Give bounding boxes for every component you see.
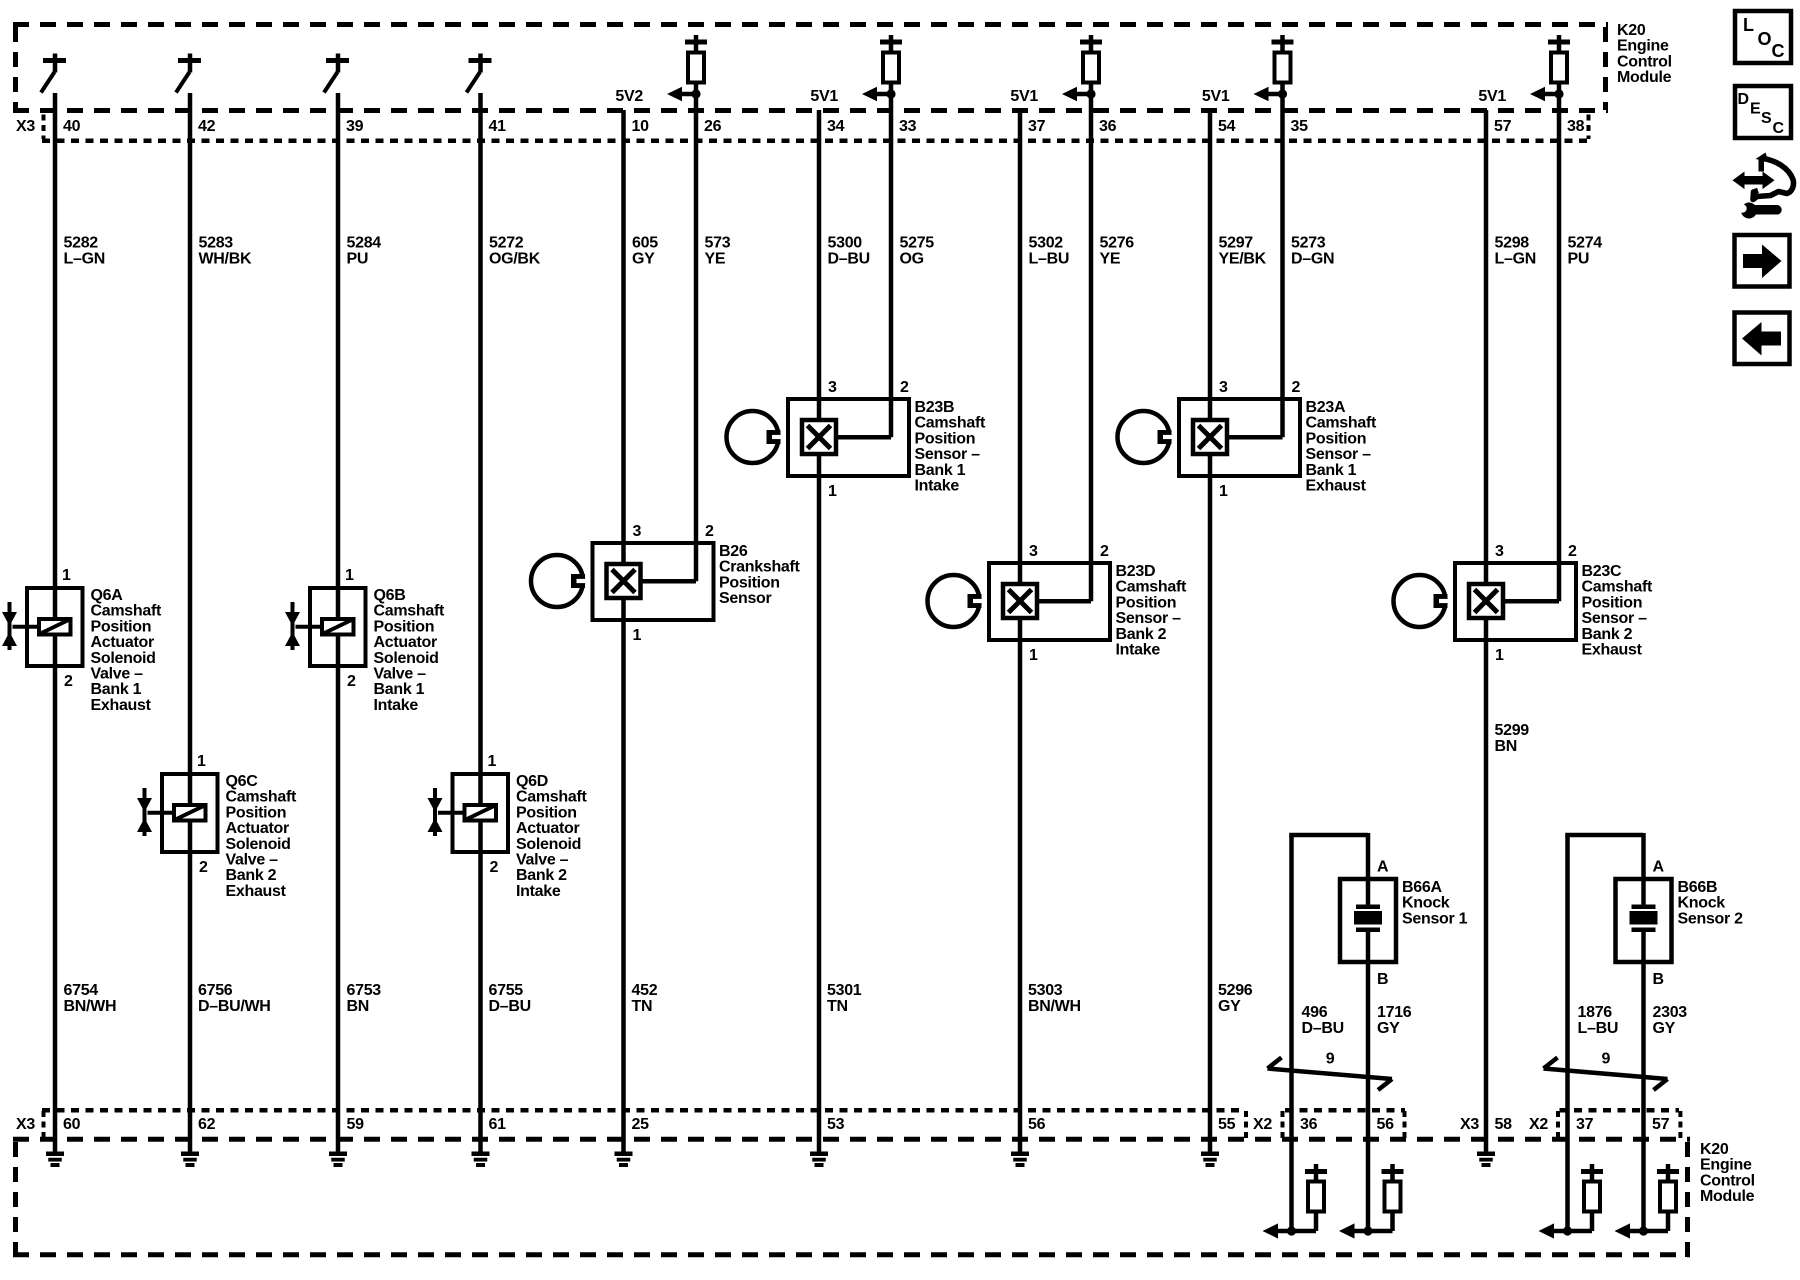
svg-text:496: 496 (1302, 1004, 1328, 1021)
svg-text:5282: 5282 (64, 235, 99, 252)
svg-text:605: 605 (632, 235, 658, 252)
svg-text:YE: YE (1100, 251, 1121, 268)
svg-text:B66A: B66A (1402, 879, 1442, 896)
wire label 496 D&#8211;BU (1302, 1004, 1344, 1037)
svg-text:5303: 5303 (1028, 982, 1063, 999)
wire label 5297 YE/BK (1219, 235, 1267, 268)
resistor (internal pull-up at 5V1, wire x=1559) (1548, 35, 1570, 83)
svg-text:X3: X3 (16, 1116, 35, 1133)
svg-text:40: 40 (63, 118, 81, 135)
svg-text:Camshaft: Camshaft (226, 789, 297, 806)
svg-text:B66B: B66B (1678, 879, 1718, 896)
knock sensor B66A Knock Sensor 1 (1289, 833, 1467, 1139)
svg-text:Control: Control (1617, 53, 1672, 70)
K20 Engine Control Module (bottom) dashed border (13, 1139, 1690, 1257)
wire label 2303 GY (1653, 1004, 1688, 1037)
svg-text:Sensor: Sensor (719, 590, 772, 607)
svg-text:B: B (1377, 971, 1388, 988)
svg-text:Valve –: Valve – (516, 852, 569, 869)
svg-text:9: 9 (1326, 1051, 1335, 1068)
svg-text:35: 35 (1291, 118, 1309, 135)
svg-text:TN: TN (632, 998, 653, 1015)
svg-text:Position: Position (1306, 430, 1367, 447)
svg-text:Position: Position (516, 804, 577, 821)
ECM low-side driver switch 1 (pin 40) (41, 54, 66, 93)
sensor B26 Crankshaft Position Sensor (531, 523, 801, 644)
svg-text:Position: Position (374, 618, 435, 635)
svg-text:Engine: Engine (1617, 38, 1669, 55)
svg-text:D: D (1738, 91, 1749, 108)
connector X2 (bottom right) dotted row (1560, 1108, 1680, 1113)
svg-text:62: 62 (198, 1116, 216, 1133)
svg-text:34: 34 (827, 118, 845, 135)
connector X3 (top) separator left (42, 115, 46, 140)
wire x=338 top segment (336, 93, 341, 588)
connector separator x=1246 (1244, 1111, 1248, 1138)
svg-text:GY: GY (1218, 998, 1241, 1015)
ECM low-side driver switch 2 (pin 42) (176, 54, 201, 93)
knock sensor B66B Knock Sensor 2 (1565, 833, 1743, 1139)
svg-text:D–BU/WH: D–BU/WH (198, 998, 271, 1015)
svg-text:Q6C: Q6C (226, 773, 259, 790)
pin 33 (X3 top) (899, 118, 917, 135)
svg-text:Actuator: Actuator (91, 634, 154, 651)
connector X3 (top) label (16, 118, 35, 135)
svg-text:9: 9 (1602, 1051, 1611, 1068)
twisted pair marker 9 (B66A Knock Sensor 1) (1268, 1051, 1393, 1091)
node 5V2 reference arrow (615, 87, 700, 105)
svg-text:Solenoid: Solenoid (516, 836, 581, 853)
svg-text:B26: B26 (719, 543, 748, 560)
svg-text:Intake: Intake (1116, 642, 1161, 659)
svg-text:YE: YE (705, 251, 726, 268)
pin 37 (bottom row x=1576) (1576, 1116, 1594, 1133)
wire label 5282 L&#8211;GN (64, 235, 105, 268)
svg-text:3: 3 (1029, 543, 1038, 560)
svg-text:C: C (1772, 41, 1785, 61)
ECM knock input network (wire x=1643.5) (1615, 1139, 1680, 1239)
wire x=1020 top segment (1018, 110, 1023, 565)
svg-text:2: 2 (64, 673, 73, 690)
svg-text:GY: GY (1653, 1020, 1676, 1037)
svg-text:36: 36 (1099, 118, 1117, 135)
svg-text:B: B (1653, 971, 1664, 988)
pin 59 (bottom row x=346.5) (347, 1116, 365, 1133)
svg-text:1876: 1876 (1578, 1004, 1613, 1021)
svg-text:Position: Position (226, 804, 287, 821)
connector separator x=1282.5 (1281, 1111, 1285, 1138)
svg-text:54: 54 (1218, 118, 1236, 135)
svg-text:3: 3 (633, 523, 642, 540)
svg-text:1: 1 (828, 483, 837, 500)
wire x=1091 top segment (1089, 82, 1094, 565)
svg-text:573: 573 (705, 235, 731, 252)
wire label 1876 L&#8211;BU (1578, 1004, 1619, 1037)
svg-text:Camshaft: Camshaft (1116, 579, 1187, 596)
svg-text:5283: 5283 (199, 235, 234, 252)
wire label 573 YE (705, 235, 731, 268)
resistor (internal pull-up at 5V1, wire x=891) (880, 35, 902, 83)
wire label 5283 WH/BK (199, 235, 252, 268)
svg-text:1: 1 (488, 753, 497, 770)
pin 40 (X3 top) (63, 118, 81, 135)
pin 55 (bottom row x=1218) (1218, 1116, 1236, 1133)
ECM knock input network (wire x=1567.5) (1539, 1139, 1604, 1239)
svg-text:X3: X3 (16, 118, 35, 135)
svg-text:33: 33 (899, 118, 917, 135)
node 5V1 reference arrow (1010, 87, 1095, 105)
svg-text:PU: PU (1568, 251, 1590, 268)
svg-text:Bank 1: Bank 1 (374, 681, 425, 698)
svg-text:Camshaft: Camshaft (915, 415, 986, 432)
svg-text:L–BU: L–BU (1578, 1020, 1619, 1037)
pin X2 (bottom row x=1253) (1253, 1116, 1272, 1133)
resistor (internal pull-up at 5V1, wire x=1091) (1080, 35, 1102, 83)
wire x=1486 lower segment (1484, 640, 1489, 1139)
svg-text:Q6D: Q6D (516, 773, 548, 790)
svg-text:BN/WH: BN/WH (64, 998, 117, 1015)
resistor (internal pull-up at 5V2, wire x=696) (685, 35, 707, 83)
wire x=623.5 lower segment (621, 620, 626, 1139)
svg-text:B23B: B23B (915, 399, 955, 416)
svg-text:K20: K20 (1617, 22, 1646, 39)
wire label 1716 GY (1377, 1004, 1412, 1037)
icon LOC box (1735, 11, 1791, 63)
svg-text:K20: K20 (1700, 1141, 1729, 1158)
svg-text:5274: 5274 (1568, 235, 1603, 252)
svg-text:60: 60 (63, 1116, 81, 1133)
wire label 6754 BN/WH (64, 982, 117, 1015)
connector X2 (bottom left) dotted row (1285, 1108, 1405, 1113)
wire x=55 lower segment (53, 666, 58, 1139)
svg-text:6755: 6755 (489, 982, 524, 999)
svg-text:Bank 2: Bank 2 (226, 867, 277, 884)
wire label 5273 D&#8211;GN (1291, 235, 1334, 268)
wire label 5272 OG/BK (489, 235, 541, 268)
svg-text:2: 2 (1568, 543, 1577, 560)
wire x=1210 top segment (1208, 110, 1213, 401)
svg-text:X2: X2 (1529, 1116, 1548, 1133)
svg-text:2: 2 (199, 859, 208, 876)
svg-text:452: 452 (632, 982, 658, 999)
svg-text:5301: 5301 (827, 982, 862, 999)
wire x=623.5 top segment (621, 110, 626, 545)
svg-text:5275: 5275 (900, 235, 935, 252)
pin 54 (X3 top) (1218, 118, 1236, 135)
svg-text:55: 55 (1218, 1116, 1236, 1133)
svg-text:BN/WH: BN/WH (1028, 998, 1081, 1015)
wire label 5298 L&#8211;GN (1495, 235, 1536, 268)
svg-text:2: 2 (705, 523, 714, 540)
svg-text:B23C: B23C (1582, 563, 1622, 580)
svg-text:36: 36 (1300, 1116, 1318, 1133)
svg-text:Intake: Intake (374, 697, 419, 714)
pin 57 (X3 top) (1494, 118, 1512, 135)
K20 Engine Control Module (top) dashed border (13, 25, 1608, 111)
svg-text:Camshaft: Camshaft (374, 603, 445, 620)
svg-text:Module: Module (1700, 1188, 1755, 1205)
svg-text:D–GN: D–GN (1291, 251, 1334, 268)
svg-text:Exhaust: Exhaust (226, 883, 287, 900)
K20 Engine Control Module (top) label (1617, 22, 1672, 86)
icon DESC box (1735, 86, 1791, 138)
wire label 5276 YE (1100, 235, 1135, 268)
svg-text:D–BU: D–BU (1302, 1020, 1344, 1037)
svg-text:2: 2 (490, 859, 499, 876)
svg-text:42: 42 (198, 118, 216, 135)
twisted pair marker 9 (B66B Knock Sensor 2) (1544, 1051, 1668, 1091)
pin X2 (bottom row x=1529) (1529, 1116, 1548, 1133)
svg-text:6756: 6756 (198, 982, 233, 999)
wire label 5274 PU (1568, 235, 1603, 268)
svg-text:Actuator: Actuator (226, 820, 289, 837)
svg-text:5V1: 5V1 (1202, 88, 1230, 105)
pin 26 (X3 top) (704, 118, 722, 135)
svg-text:6753: 6753 (347, 982, 382, 999)
svg-text:Position: Position (1116, 594, 1177, 611)
svg-text:L–GN: L–GN (64, 251, 105, 268)
ground (wire x=623.5) (615, 1139, 633, 1167)
wire label 5302 L&#8211;BU (1029, 235, 1070, 268)
svg-text:BN: BN (347, 998, 370, 1015)
svg-text:Bank 2: Bank 2 (516, 867, 567, 884)
svg-text:1716: 1716 (1377, 1004, 1412, 1021)
svg-text:Sensor 1: Sensor 1 (1402, 910, 1468, 927)
svg-text:1: 1 (1029, 647, 1038, 664)
ECM knock input network (wire x=1368) (1339, 1139, 1404, 1239)
wire x=1210 lower segment (1208, 476, 1213, 1139)
svg-text:1: 1 (345, 567, 354, 584)
svg-text:1: 1 (197, 753, 206, 770)
ground (wire x=1020) (1011, 1139, 1029, 1167)
svg-text:C: C (1773, 120, 1785, 137)
icon arrow right box (1735, 235, 1790, 287)
sensor B23A Camshaft Position Sensor Bank 1 Exhaust (1118, 379, 1377, 500)
connector X3 (top) separator right (1587, 115, 1591, 140)
wire label 5275 OG (900, 235, 935, 268)
svg-text:5297: 5297 (1219, 235, 1254, 252)
svg-text:A: A (1653, 859, 1665, 876)
wire x=190 lower segment (188, 852, 193, 1139)
wire x=480.5 lower segment (478, 852, 483, 1139)
pin 61 (bottom row x=488.5) (489, 1116, 507, 1133)
pin 34 (X3 top) (827, 118, 845, 135)
pin 57 (bottom row x=1652) (1652, 1116, 1670, 1133)
svg-text:3: 3 (828, 379, 837, 396)
svg-text:Position: Position (915, 430, 976, 447)
node 5V1 reference arrow (1478, 87, 1563, 105)
wire label 6756 D&#8211;BU/WH (198, 982, 271, 1015)
wire x=338 lower segment (336, 666, 341, 1139)
ECM low-side driver switch 4 (pin 41) (467, 54, 492, 93)
svg-text:Solenoid: Solenoid (91, 650, 156, 667)
svg-text:Bank 1: Bank 1 (915, 462, 966, 479)
pin 39 (X3 top) (346, 118, 364, 135)
svg-text:Q6A: Q6A (91, 587, 124, 604)
svg-text:OG/BK: OG/BK (489, 251, 541, 268)
svg-text:5V1: 5V1 (1010, 88, 1038, 105)
svg-text:Valve –: Valve – (226, 852, 279, 869)
svg-text:Bank 1: Bank 1 (91, 681, 142, 698)
node 5V1 reference arrow (810, 87, 895, 105)
ground (wire x=338) (329, 1139, 347, 1167)
svg-text:37: 37 (1028, 118, 1046, 135)
svg-text:5300: 5300 (828, 235, 863, 252)
svg-text:Module: Module (1617, 69, 1672, 86)
svg-text:5299: 5299 (1495, 722, 1530, 739)
connector separator x=1558 (1556, 1111, 1560, 1138)
svg-text:Sensor –: Sensor – (1306, 446, 1372, 463)
pin 62 (bottom row x=198) (198, 1116, 216, 1133)
svg-text:5276: 5276 (1100, 235, 1135, 252)
sensor B23D Camshaft Position Sensor Bank 2 Intake (928, 543, 1187, 664)
svg-text:Camshaft: Camshaft (91, 603, 162, 620)
svg-text:Knock: Knock (1402, 895, 1450, 912)
wire x=1282.5 top segment (1280, 82, 1285, 401)
svg-text:WH/BK: WH/BK (199, 251, 252, 268)
ECM knock input network (wire x=1291.5) (1263, 1139, 1328, 1239)
pin 35 (X3 top) (1291, 118, 1309, 135)
svg-text:GY: GY (632, 251, 655, 268)
svg-text:Camshaft: Camshaft (516, 789, 587, 806)
ground (wire x=55) (46, 1139, 64, 1167)
pin 42 (X3 top) (198, 118, 216, 135)
svg-text:L–GN: L–GN (1495, 251, 1536, 268)
svg-text:Knock: Knock (1678, 895, 1726, 912)
wire label 6755 D&#8211;BU (489, 982, 531, 1015)
svg-text:39: 39 (346, 118, 364, 135)
wire x=480.5 top segment (478, 93, 483, 774)
svg-text:61: 61 (489, 1116, 507, 1133)
svg-text:Solenoid: Solenoid (374, 650, 439, 667)
svg-text:Valve –: Valve – (374, 666, 427, 683)
sensor B23B Camshaft Position Sensor Bank 1 Intake (727, 379, 986, 500)
svg-text:Camshaft: Camshaft (1582, 579, 1653, 596)
svg-text:26: 26 (704, 118, 722, 135)
pin 56 (bottom row x=1028) (1028, 1116, 1046, 1133)
wire label 6753 BN (347, 982, 382, 1015)
svg-text:56: 56 (1377, 1116, 1395, 1133)
svg-text:X3: X3 (1460, 1116, 1479, 1133)
svg-text:Sensor –: Sensor – (1582, 610, 1648, 627)
svg-text:57: 57 (1494, 118, 1512, 135)
wire x=190 top segment (188, 93, 193, 774)
svg-text:Bank 1: Bank 1 (1306, 462, 1357, 479)
pin X3 (bottom row x=1460) (1460, 1116, 1479, 1133)
svg-text:2303: 2303 (1653, 1004, 1688, 1021)
wire x=1559 top segment (1557, 82, 1562, 565)
svg-text:S: S (1761, 110, 1772, 127)
svg-text:5273: 5273 (1291, 235, 1326, 252)
connector separator x=43.5 (42, 1111, 46, 1138)
svg-text:5V2: 5V2 (615, 88, 643, 105)
ground (wire x=1210) (1201, 1139, 1219, 1167)
svg-text:Crankshaft: Crankshaft (719, 559, 801, 576)
svg-text:1: 1 (1495, 647, 1504, 664)
solenoid valve Q6A (2, 567, 162, 714)
svg-text:E: E (1750, 101, 1761, 118)
icon double arrow / curved arrow / wrench (service info) (1733, 153, 1794, 219)
svg-text:2: 2 (1292, 379, 1301, 396)
wire label 5299 BN (1495, 722, 1530, 755)
wire label 5300 D&#8211;BU (828, 235, 870, 268)
pin 38 (X3 top) (1567, 118, 1585, 135)
svg-text:PU: PU (347, 251, 369, 268)
solenoid valve Q6B (285, 567, 445, 714)
svg-text:Exhaust: Exhaust (1306, 478, 1367, 495)
wire label 5296 GY (1218, 982, 1253, 1015)
svg-text:Position: Position (1582, 594, 1643, 611)
svg-text:1: 1 (62, 567, 71, 584)
svg-text:Position: Position (91, 618, 152, 635)
svg-text:TN: TN (827, 998, 848, 1015)
wire x=819 top segment (817, 110, 822, 401)
svg-text:53: 53 (827, 1116, 845, 1133)
svg-text:Q6B: Q6B (374, 587, 406, 604)
svg-text:Bank 2: Bank 2 (1116, 626, 1167, 643)
pin 58 (bottom row x=1494.5) (1495, 1116, 1513, 1133)
svg-text:Position: Position (719, 574, 780, 591)
pin 56 (bottom row x=1376.5) (1377, 1116, 1395, 1133)
svg-text:38: 38 (1567, 118, 1585, 135)
svg-text:5302: 5302 (1029, 235, 1064, 252)
pin 25 (bottom row x=631.5) (632, 1116, 650, 1133)
svg-text:D–BU: D–BU (489, 998, 531, 1015)
pin X3 (bottom row x=16) (16, 1116, 35, 1133)
svg-text:OG: OG (900, 251, 924, 268)
svg-text:58: 58 (1495, 1116, 1513, 1133)
svg-text:2: 2 (347, 673, 356, 690)
wire label 5303 BN/WH (1028, 982, 1081, 1015)
svg-text:37: 37 (1576, 1116, 1594, 1133)
wire x=1486 top segment (1484, 110, 1489, 565)
connector separator x=1680.4 (1678, 1111, 1682, 1138)
svg-text:Sensor –: Sensor – (1116, 610, 1182, 627)
svg-text:25: 25 (632, 1116, 650, 1133)
svg-text:Sensor –: Sensor – (915, 446, 981, 463)
svg-text:Engine: Engine (1700, 1157, 1752, 1174)
svg-text:10: 10 (632, 118, 650, 135)
svg-text:3: 3 (1495, 543, 1504, 560)
svg-text:Intake: Intake (915, 478, 960, 495)
ground (wire x=480.5) (472, 1139, 490, 1167)
svg-text:1: 1 (633, 627, 642, 644)
solenoid valve Q6D (428, 753, 588, 900)
svg-text:1: 1 (1219, 483, 1228, 500)
svg-text:L–BU: L–BU (1029, 251, 1070, 268)
svg-text:41: 41 (489, 118, 507, 135)
svg-text:2: 2 (1100, 543, 1109, 560)
solenoid valve Q6C (137, 753, 297, 900)
svg-text:Actuator: Actuator (374, 634, 437, 651)
svg-text:L: L (1743, 15, 1754, 35)
svg-text:Exhaust: Exhaust (91, 697, 152, 714)
pin 10 (X3 top) (632, 118, 650, 135)
svg-text:5284: 5284 (347, 235, 382, 252)
wire x=891 top segment (889, 82, 894, 401)
svg-text:2: 2 (900, 379, 909, 396)
K20 Engine Control Module (bottom) label (1700, 1141, 1755, 1205)
svg-text:5296: 5296 (1218, 982, 1253, 999)
svg-text:Camshaft: Camshaft (1306, 415, 1377, 432)
wire x=819 lower segment (817, 476, 822, 1139)
svg-text:Intake: Intake (516, 883, 561, 900)
svg-text:3: 3 (1219, 379, 1228, 396)
wire x=55 top segment (53, 93, 58, 588)
svg-text:B23D: B23D (1116, 563, 1156, 580)
wire x=1020 lower segment (1018, 640, 1023, 1139)
pin 41 (X3 top) (489, 118, 507, 135)
